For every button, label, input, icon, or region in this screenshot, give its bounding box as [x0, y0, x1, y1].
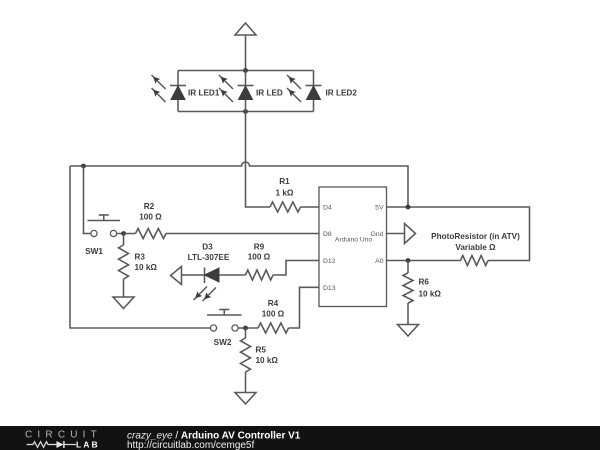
svg-text:IR LED2: IR LED2: [326, 89, 358, 98]
svg-text:10 kΩ: 10 kΩ: [256, 356, 279, 365]
ground below R6: [398, 325, 419, 337]
wire SW1 feed down: [84, 166, 91, 234]
resistor R1: [270, 202, 301, 212]
junction R5 tap: [243, 326, 248, 331]
svg-text:5V: 5V: [375, 205, 384, 212]
svg-text:100 Ω: 100 Ω: [139, 213, 162, 222]
resistor R3: [119, 234, 129, 298]
svg-text:D13: D13: [323, 285, 336, 292]
junction top rail: [243, 68, 248, 73]
wire left rail down to SW2: [70, 166, 210, 328]
photoresistor variable: [461, 256, 489, 266]
junction 5V rail: [406, 205, 411, 210]
svg-text:R4: R4: [268, 299, 279, 308]
wire Gnd pin stub: [387, 233, 405, 235]
svg-text:R6: R6: [419, 278, 430, 287]
wire SW2 to R4: [238, 327, 258, 329]
junction R3 tap: [121, 231, 126, 236]
footer banner: [0, 426, 600, 450]
junction SW1 feed: [81, 164, 86, 169]
svg-text:R1: R1: [279, 177, 290, 186]
port node Gnd: [405, 224, 416, 244]
wire R4 to D13: [289, 287, 320, 328]
op-amp U1 Arduino Uno box: [319, 187, 387, 307]
power flag V+: [235, 23, 256, 35]
wire LED bank bottom rail: [178, 111, 314, 113]
logo squiggle resistor-diode: [27, 442, 57, 448]
resistor R9: [246, 270, 274, 280]
svg-text:SW1: SW1: [85, 247, 103, 256]
junction A0/R6: [406, 258, 411, 263]
svg-text:R2: R2: [144, 202, 155, 211]
junction bottom rail: [243, 109, 248, 114]
svg-text:Arduino Uno: Arduino Uno: [335, 237, 372, 244]
wire center vertical to R1: [246, 112, 271, 208]
resistor R5: [241, 328, 251, 393]
LED IR LED1: [152, 71, 220, 112]
svg-text:10 kΩ: 10 kΩ: [419, 290, 442, 299]
ground below R3: [113, 297, 134, 309]
svg-text:SW2: SW2: [214, 338, 232, 347]
svg-text:LTL-307EE: LTL-307EE: [188, 253, 230, 262]
svg-text:100 Ω: 100 Ω: [248, 253, 271, 262]
wire D3 to R9: [219, 274, 246, 276]
wire R1 to D4: [301, 206, 320, 208]
ground below R5: [235, 393, 256, 405]
diode D3 LTL-307EE: [194, 268, 220, 302]
resistor R6: [403, 261, 413, 325]
svg-text:10 kΩ: 10 kΩ: [135, 263, 158, 272]
port node at D3: [171, 267, 182, 285]
svg-text:A0: A0: [375, 258, 384, 265]
wire R9 to D12: [273, 261, 319, 276]
svg-text:R9: R9: [254, 243, 265, 252]
svg-text:D3: D3: [202, 243, 213, 252]
svg-text:LAB: LAB: [76, 440, 100, 450]
wire 5V to photoresistor loop: [387, 207, 530, 261]
wire SW1 to R2: [117, 233, 136, 235]
svg-text:R5: R5: [256, 346, 267, 355]
switch SW1: [88, 215, 121, 237]
svg-text:Variable Ω: Variable Ω: [455, 243, 496, 252]
wire photoresistor to A0: [387, 260, 461, 262]
svg-text:D8: D8: [323, 231, 332, 238]
svg-text:100 Ω: 100 Ω: [262, 310, 285, 319]
svg-text:IR LED: IR LED: [256, 89, 283, 98]
svg-text:IR LED1: IR LED1: [188, 89, 220, 98]
svg-text:D12: D12: [323, 258, 336, 265]
svg-text:D4: D4: [323, 205, 332, 212]
wire top rail with hop: [70, 162, 408, 207]
svg-text:R3: R3: [135, 253, 146, 262]
wire LED bank top rail: [178, 70, 314, 72]
svg-text:Gnd: Gnd: [371, 231, 384, 238]
LED IR LED: [219, 71, 283, 112]
wire power stem: [245, 35, 247, 71]
LED IR LED2: [287, 71, 357, 112]
svg-text:http://circuitlab.com/cemge5f: http://circuitlab.com/cemge5f: [127, 440, 254, 450]
wire R2 to D8: [166, 233, 319, 235]
svg-text:PhotoResistor (in ATV): PhotoResistor (in ATV): [431, 232, 520, 241]
resistor R2: [136, 229, 166, 239]
switch SW2: [207, 310, 242, 332]
wire port to D3: [182, 274, 205, 276]
svg-text:1 kΩ: 1 kΩ: [276, 189, 294, 198]
resistor R4: [258, 323, 289, 333]
